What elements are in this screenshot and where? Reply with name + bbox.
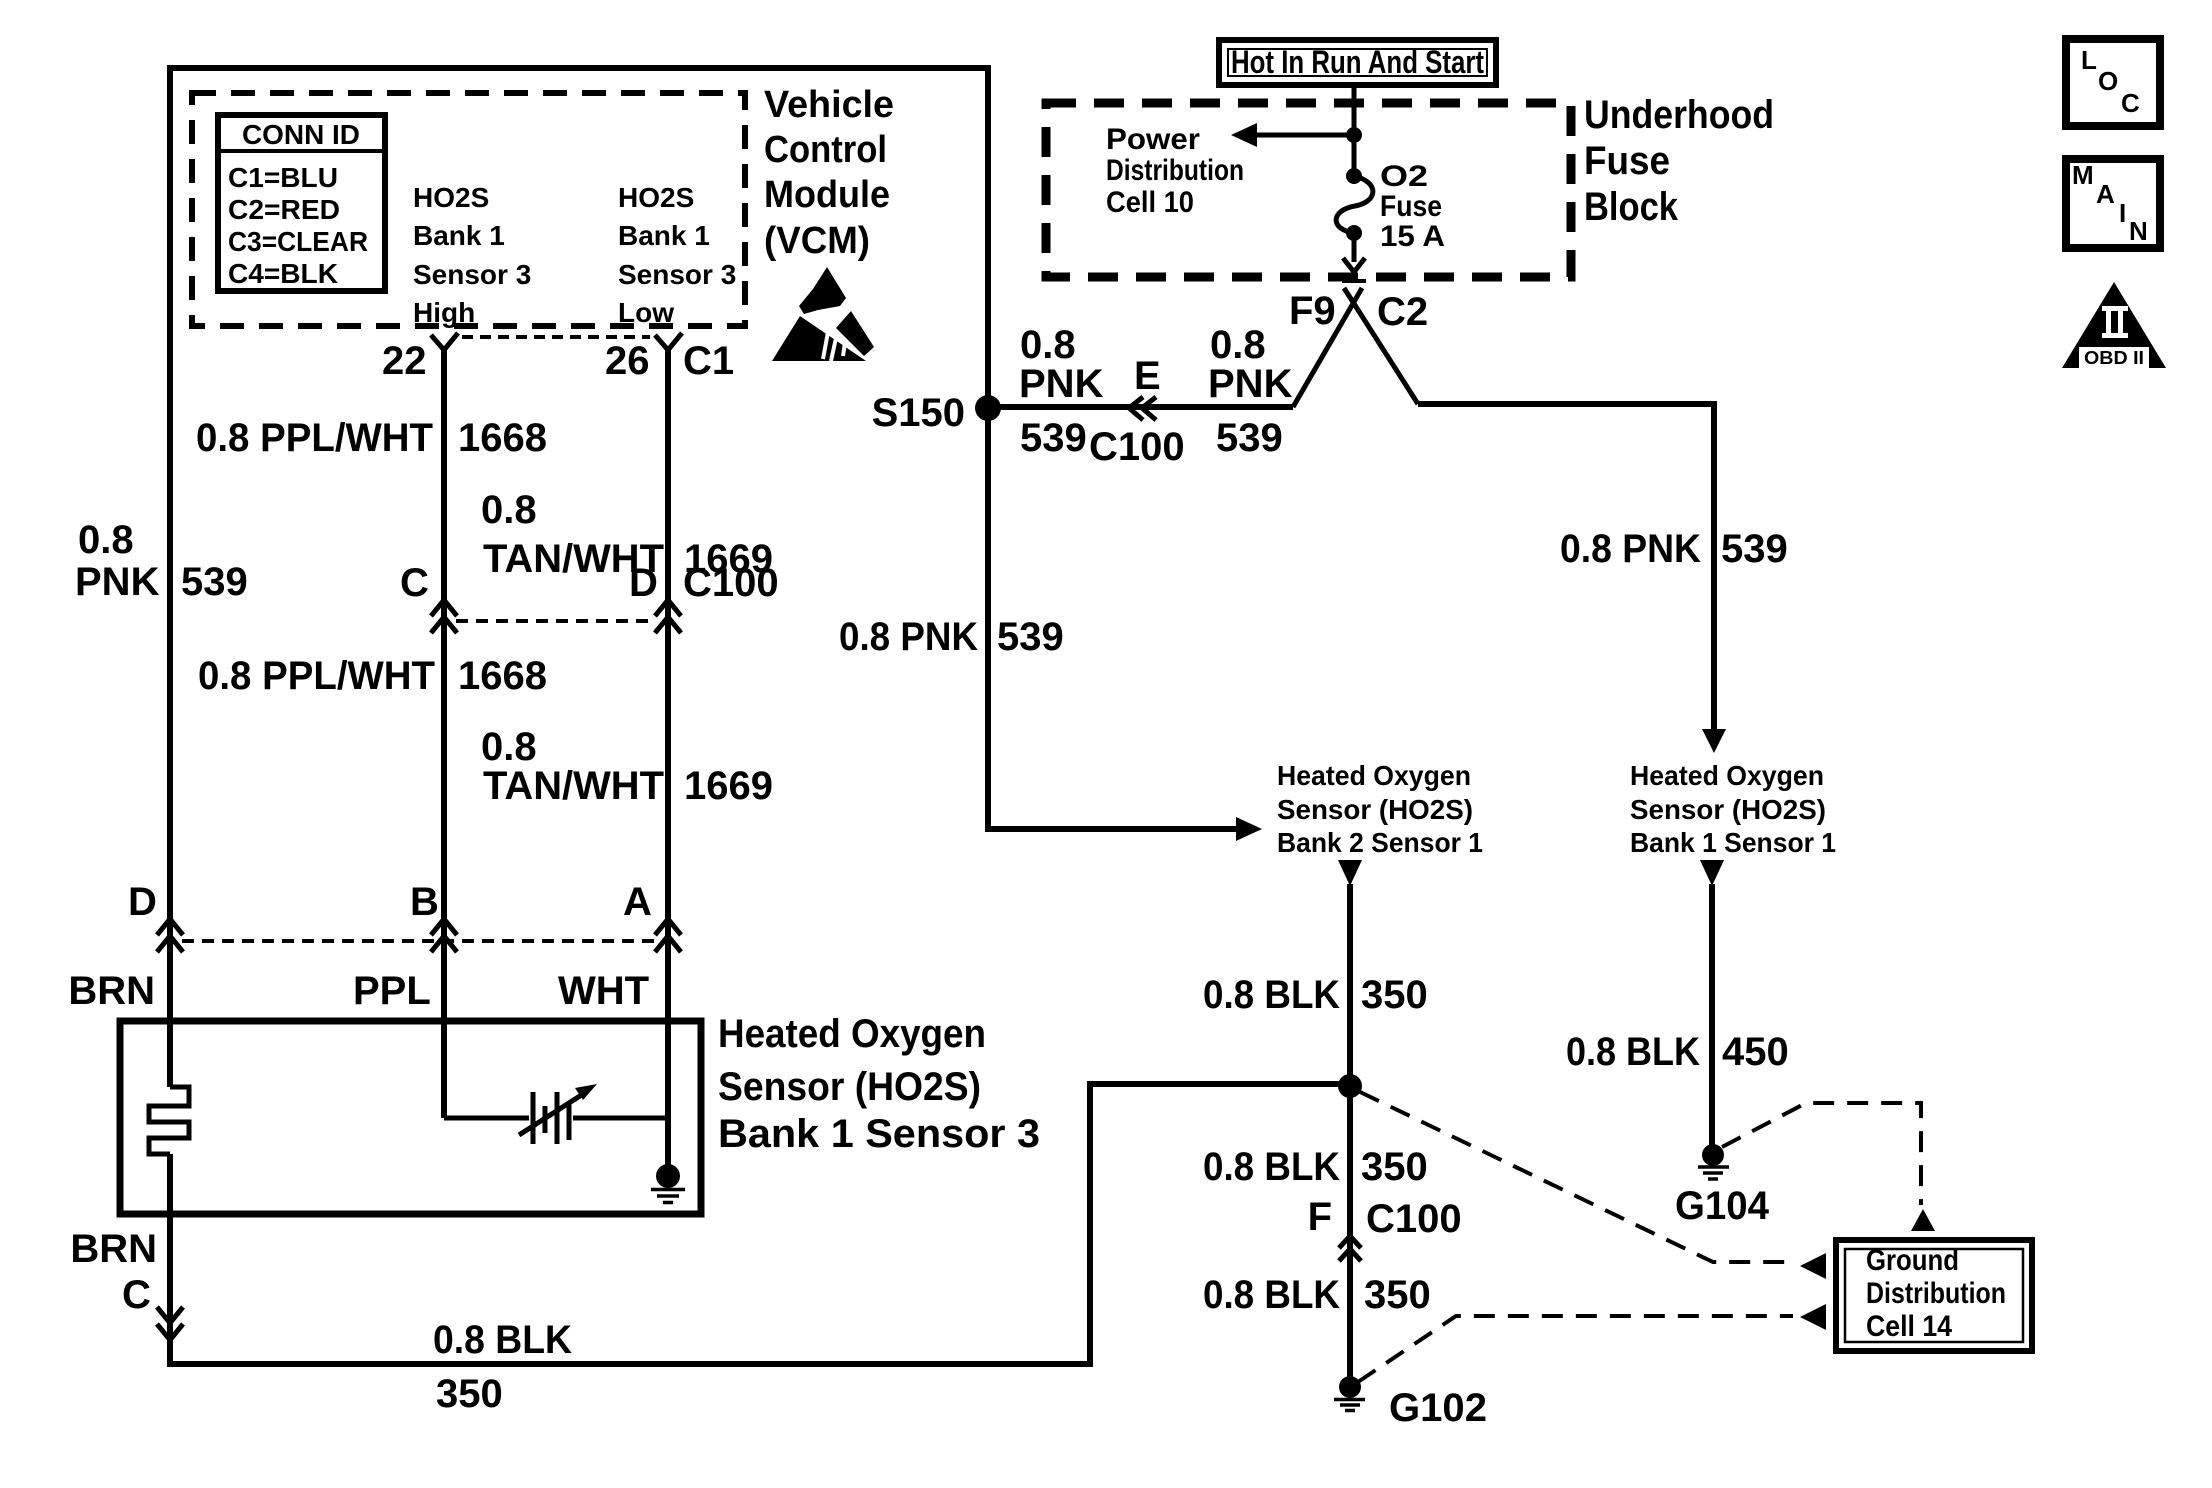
node S150 splice dot (975, 395, 1001, 421)
connector C100 chevrons on wire 1668 (431, 600, 457, 633)
label: HO2S Bank 1 Sensor 3 High (pin 22) (413, 182, 531, 328)
svg-text:B: B (410, 880, 439, 924)
svg-text:Heated Oxygen: Heated Oxygen (1277, 760, 1471, 791)
svg-text:C: C (122, 1273, 151, 1317)
box: Heated Oxygen Sensor (HO2S) Bank 1 Sensor 3 (120, 1021, 701, 1214)
connector C100 dashed tie line (456, 619, 656, 623)
label: Vehicle Control Module (VCM) (764, 84, 894, 262)
svg-text:PPL: PPL (353, 969, 431, 1013)
svg-text:High: High (413, 297, 475, 328)
label: HO2S Bank 1 Sensor 3 Low (pin 26) (618, 182, 736, 328)
sensor connector dashed tie line (182, 939, 656, 943)
svg-text:(VCM): (VCM) (764, 220, 870, 262)
wire: BLK 450 from Bank 1 Sensor 1 to G104 (1709, 884, 1715, 1146)
svg-text:Bank 2 Sensor 1: Bank 2 Sensor 1 (1277, 827, 1483, 858)
svg-text:M: M (2072, 160, 2094, 190)
ESD sensitive device symbol (772, 267, 874, 361)
svg-text:0.8: 0.8 (78, 518, 134, 562)
fuse O2 15A element (1336, 168, 1373, 241)
svg-text:C: C (2121, 88, 2140, 118)
connector C1 dashed tie line (462, 335, 650, 339)
arrowhead down to HO2S Bank 1 Sensor 1 (1702, 729, 1726, 753)
svg-text:E: E (1134, 354, 1161, 398)
svg-text:CONN ID: CONN ID (242, 119, 360, 150)
svg-text:N: N (2129, 216, 2148, 246)
svg-text:F9: F9 (1289, 289, 1336, 333)
wire: PPL/WHT 1668 from pin 22 (441, 350, 447, 1118)
svg-text:0.8 BLK: 0.8 BLK (1566, 1030, 1700, 1074)
box: Hot In Run And Start (1219, 40, 1496, 85)
svg-text:Underhood: Underhood (1584, 93, 1774, 137)
svg-text:1668: 1668 (458, 654, 547, 698)
svg-text:Control: Control (764, 129, 887, 171)
svg-text:C100: C100 (1089, 425, 1185, 469)
svg-text:G104: G104 (1675, 1184, 1770, 1228)
wire: TAN/WHT 1669 from pin 26 (665, 350, 671, 1166)
svg-text:Block: Block (1584, 185, 1679, 229)
svg-text:1669: 1669 (684, 764, 773, 808)
svg-text:O: O (2098, 66, 2118, 96)
wire: arrow to Power Distribution Cell 10 (1256, 133, 1354, 138)
svg-text:C: C (400, 561, 429, 605)
svg-text:Cell 14: Cell 14 (1866, 1310, 1952, 1343)
svg-text:WHT: WHT (558, 969, 649, 1013)
arrowhead into HO2S Bank 2 Sensor 1 (1236, 817, 1262, 841)
ground G102 (1334, 1376, 1365, 1411)
svg-text:Sensor 3: Sensor 3 (413, 259, 531, 290)
wire: diagonal legs of F9/C2 connector X (1293, 288, 1418, 407)
svg-text:0.8 PNK: 0.8 PNK (1560, 527, 1701, 571)
svg-text:Bank 1: Bank 1 (618, 220, 710, 251)
svg-text:S150: S150 (872, 391, 965, 435)
svg-text:C1=BLU: C1=BLU (228, 162, 338, 193)
svg-text:Hot In Run And Start: Hot In Run And Start (1231, 44, 1484, 80)
arrow out of HO2S Bank 2 Sensor 1 (1338, 860, 1362, 886)
wire: PNK 539 loop from VCM left pin over top to S150 and on to HO2S Bank 2 Sensor 1 (170, 68, 1240, 1087)
wire: BLK 350 from Bank 2 Sensor 1 to G102 (1347, 884, 1353, 1377)
svg-text:1668: 1668 (458, 416, 547, 460)
svg-text:OBD II: OBD II (2084, 348, 2144, 368)
variable sense element inside sensor (444, 1084, 668, 1144)
connector C100 chevrons on wire 1669 (655, 600, 681, 633)
svg-text:A: A (2096, 179, 2115, 209)
label: Heated Oxygen Sensor (HO2S) Bank 1 Sensor 3 (718, 1012, 1040, 1156)
svg-text:D: D (128, 880, 157, 924)
svg-text:Heated Oxygen: Heated Oxygen (718, 1012, 986, 1056)
connector C100 chevrons (terminal E) (1129, 397, 1156, 420)
label: O2 Fuse 15 A (1380, 160, 1445, 253)
svg-text:0.8: 0.8 (1210, 323, 1266, 367)
svg-text:Vehicle: Vehicle (764, 84, 894, 126)
svg-text:Sensor 3: Sensor 3 (618, 259, 736, 290)
svg-text:PNK: PNK (1208, 362, 1293, 406)
box: VCM (dashed) (192, 93, 745, 326)
svg-text:C2=RED: C2=RED (228, 194, 340, 225)
svg-text:0.8: 0.8 (1020, 323, 1076, 367)
svg-text:0.8 PPL/WHT: 0.8 PPL/WHT (198, 654, 435, 698)
box: Ground Distribution Cell 14 (1836, 1240, 2032, 1351)
box: Underhood Fuse Block (dashed) (1046, 103, 1571, 277)
svg-text:539: 539 (997, 615, 1064, 659)
svg-text:Module: Module (764, 174, 890, 216)
svg-text:0.8 BLK: 0.8 BLK (1203, 1273, 1340, 1317)
svg-text:D: D (629, 561, 658, 605)
symbol: OBD II triangle (2062, 282, 2166, 368)
svg-text:I: I (2119, 198, 2126, 228)
svg-text:350: 350 (1364, 1273, 1431, 1317)
svg-text:C100: C100 (683, 561, 779, 605)
svg-text:PNK: PNK (1019, 362, 1104, 406)
svg-text:BRN: BRN (70, 1227, 157, 1271)
symbol: MAIN box (2066, 159, 2160, 248)
label: Power Distribution Cell 10 (1106, 123, 1244, 219)
svg-text:0.8 PPL/WHT: 0.8 PPL/WHT (196, 416, 433, 460)
label: Heated Oxygen Sensor (HO2S) Bank 1 Sensor 1 (1630, 760, 1836, 858)
arrowhead into Ground Distribution (upper) (1800, 1253, 1826, 1279)
svg-text:0.8: 0.8 (481, 725, 537, 769)
svg-text:0.8: 0.8 (481, 488, 537, 532)
wire: BRN heater return (170, 1084, 1346, 1364)
sensor connector chevrons on BRN wire (157, 919, 183, 952)
svg-text:A: A (623, 880, 652, 924)
pin 26 connector Y (655, 333, 682, 350)
svg-text:Sensor (HO2S): Sensor (HO2S) (1630, 794, 1826, 825)
junction dot to Power Distribution (1346, 127, 1362, 143)
svg-text:Ground: Ground (1866, 1244, 1959, 1277)
svg-text:TAN/WHT: TAN/WHT (483, 764, 664, 808)
svg-text:HO2S: HO2S (618, 182, 694, 213)
svg-text:C100: C100 (1366, 1197, 1462, 1241)
svg-text:350: 350 (1361, 1145, 1428, 1189)
svg-text:350: 350 (436, 1372, 503, 1416)
sensor connector chevrons on PPL wire (431, 919, 457, 952)
svg-text:HO2S: HO2S (413, 182, 489, 213)
svg-text:Bank 1 Sensor 1: Bank 1 Sensor 1 (1630, 827, 1836, 858)
svg-text:C4=BLK: C4=BLK (228, 258, 338, 289)
svg-text:539: 539 (1216, 416, 1283, 460)
table: CONN ID (218, 115, 385, 291)
dashed link: junction to Ground Distribution (1360, 1092, 1793, 1262)
label: Heated Oxygen Sensor (HO2S) Bank 2 Sensor 1 (1277, 760, 1483, 858)
svg-text:15 A: 15 A (1380, 220, 1445, 253)
svg-text:0.8 BLK: 0.8 BLK (1203, 973, 1340, 1017)
wire: PNK 539 from C2 to HO2S Bank 1 Sensor 1 (1418, 404, 1714, 732)
svg-text:Distribution: Distribution (1866, 1277, 2006, 1310)
arrowhead into Ground Distribution (lower) (1800, 1304, 1826, 1330)
junction dot on BLK 350 (1338, 1074, 1362, 1098)
svg-text:22: 22 (382, 339, 427, 383)
svg-text:Fuse: Fuse (1584, 139, 1670, 183)
svg-text:0.8 BLK: 0.8 BLK (433, 1318, 572, 1362)
svg-text:L: L (2081, 45, 2097, 75)
arrow out of HO2S Bank 1 Sensor 1 (1700, 860, 1724, 886)
svg-text:BRN: BRN (68, 969, 155, 1013)
sensor connector chevrons on WHT wire (655, 919, 681, 952)
dashed link: G102 to Ground Distribution (1358, 1316, 1793, 1382)
svg-text:Fuse: Fuse (1380, 190, 1442, 223)
wire: S150 to C100 horizontal PNK 539 (988, 404, 1293, 410)
ground G104 (1698, 1144, 1729, 1179)
svg-text:Heated Oxygen: Heated Oxygen (1630, 760, 1824, 791)
chevrons at terminal C (pointing down) (157, 1307, 183, 1340)
svg-text:Power: Power (1106, 123, 1200, 156)
label: Underhood Fuse Block (1584, 93, 1774, 229)
svg-text:Low: Low (618, 297, 674, 328)
svg-text:Bank 1: Bank 1 (413, 220, 505, 251)
svg-text:0.8 BLK: 0.8 BLK (1203, 1145, 1340, 1189)
svg-text:539: 539 (181, 560, 248, 604)
dashed link: G104 to Ground Distribution (1722, 1103, 1921, 1205)
svg-text:Sensor (HO2S): Sensor (HO2S) (1277, 794, 1473, 825)
heater element inside sensor (149, 1087, 189, 1154)
svg-text:F: F (1308, 1195, 1332, 1239)
arrowhead up from Ground Distribution (1911, 1209, 1935, 1231)
svg-text:Distribution: Distribution (1106, 154, 1244, 187)
svg-text:Sensor (HO2S): Sensor (HO2S) (718, 1065, 981, 1109)
svg-text:0.8 PNK: 0.8 PNK (839, 615, 978, 659)
open arrowhead at fuse block exit (1343, 258, 1365, 272)
wire: feed from Hot In Run down into fuse block (1352, 85, 1357, 262)
pin 22 connector Y (431, 333, 458, 350)
svg-text:C3=CLEAR: C3=CLEAR (228, 226, 368, 257)
svg-text:Cell 10: Cell 10 (1106, 186, 1194, 219)
svg-text:C1: C1 (683, 339, 734, 383)
svg-text:450: 450 (1722, 1030, 1789, 1074)
svg-text:G102: G102 (1389, 1386, 1487, 1430)
sensor internal ground (651, 1164, 685, 1203)
svg-text:C2: C2 (1377, 290, 1428, 334)
svg-text:26: 26 (605, 339, 650, 383)
svg-text:350: 350 (1361, 973, 1428, 1017)
svg-text:539: 539 (1020, 416, 1087, 460)
svg-text:Bank 1 Sensor 3: Bank 1 Sensor 3 (718, 1112, 1040, 1156)
symbol: LOC box (2066, 39, 2160, 126)
svg-text:PNK: PNK (75, 560, 160, 604)
svg-text:539: 539 (1721, 527, 1788, 571)
svg-text:O2: O2 (1380, 160, 1428, 193)
tick at fuse block edge (1342, 279, 1366, 283)
connector C100 chevrons on BLK 350 (1339, 1236, 1361, 1261)
